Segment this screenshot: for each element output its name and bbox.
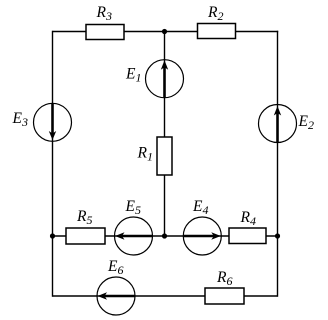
- wire R1 to node B: [164, 175, 166, 236]
- EMF source E3 (arrow down): [34, 103, 72, 141]
- node C (center middle junction): [162, 233, 167, 238]
- label R4: [240, 209, 256, 228]
- svg-text:E2: E2: [298, 113, 314, 132]
- svg-text:E6: E6: [107, 258, 123, 277]
- svg-text:E4: E4: [192, 198, 208, 217]
- label R3: [96, 4, 112, 23]
- svg-text:E1: E1: [125, 66, 141, 85]
- wire middle horizontal: [53, 235, 278, 237]
- label E1: [125, 66, 141, 85]
- svg-text:E3: E3: [12, 110, 28, 129]
- resistor R6: [205, 288, 244, 304]
- node D (right middle junction): [275, 233, 280, 238]
- wire left vertical: [52, 31, 54, 297]
- svg-text:R4: R4: [240, 209, 256, 228]
- label E6: [107, 258, 123, 277]
- resistor R2: [198, 24, 236, 39]
- label E5: [125, 198, 141, 217]
- wire bottom horizontal: [53, 295, 278, 297]
- EMF source E5 (arrow left): [115, 217, 153, 255]
- node B (left middle junction): [50, 233, 55, 238]
- svg-text:R5: R5: [76, 208, 92, 227]
- wire R3 to node A: [124, 31, 165, 33]
- wire top-left horizontal: [53, 31, 88, 33]
- label R2: [207, 4, 223, 23]
- svg-text:R3: R3: [96, 4, 112, 23]
- label E2: [298, 113, 314, 132]
- label E3: [12, 110, 28, 129]
- EMF source E2 (arrow up): [259, 105, 297, 143]
- label R1: [137, 145, 153, 164]
- wire R2 to top-right corner: [236, 31, 279, 33]
- label R5: [76, 208, 92, 227]
- resistor R4: [229, 228, 266, 244]
- wire right vertical: [277, 31, 279, 297]
- EMF source E4 (arrow right): [183, 217, 221, 255]
- wire middle vertical (node A to R1): [164, 32, 166, 138]
- label E4: [192, 198, 208, 217]
- EMF source E6 (arrow left): [97, 277, 135, 315]
- EMF source E1 (arrow up): [146, 60, 184, 98]
- svg-text:R2: R2: [207, 4, 223, 23]
- resistor R1: [157, 137, 172, 175]
- resistor R3: [86, 25, 124, 40]
- svg-text:E5: E5: [125, 198, 141, 217]
- svg-text:R1: R1: [137, 145, 153, 164]
- wire node A to R2: [165, 31, 199, 33]
- label R6: [216, 269, 232, 288]
- node A (top junction): [162, 29, 167, 34]
- svg-text:R6: R6: [216, 269, 232, 288]
- resistor R5: [66, 228, 105, 244]
